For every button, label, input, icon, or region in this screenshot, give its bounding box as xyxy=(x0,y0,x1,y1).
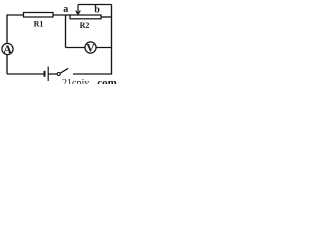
battery cell: long positive plate xyxy=(47,67,49,82)
wire voltmeter branch vertical from node a xyxy=(65,15,67,48)
wire voltmeter horizontal xyxy=(66,47,112,49)
ammeter A xyxy=(2,42,13,56)
wire right vertical xyxy=(111,5,113,75)
rheostat R2 body xyxy=(70,15,101,19)
wire bottom xyxy=(7,73,44,75)
battery cell: short negative plate xyxy=(44,71,46,77)
voltmeter V xyxy=(85,41,96,55)
wire bottom right segment xyxy=(73,73,112,75)
switch blade xyxy=(60,68,68,73)
switch pivot circle xyxy=(57,73,60,76)
svg-text:21cnjy: 21cnjy xyxy=(62,78,89,84)
wire R2 right stub xyxy=(101,16,112,18)
svg-text:b: b xyxy=(94,5,100,16)
svg-text:V: V xyxy=(86,41,95,55)
svg-text:A: A xyxy=(3,42,12,56)
wire battery to switch xyxy=(48,73,57,75)
svg-text:.com: .com xyxy=(95,77,117,84)
wire left vertical xyxy=(6,14,8,74)
wire rheostat slider top xyxy=(78,4,112,6)
svg-text:a: a xyxy=(63,4,68,15)
rheostat wiper arrow xyxy=(76,5,81,15)
resistor R1 xyxy=(24,13,54,18)
svg-text:R2: R2 xyxy=(80,21,90,30)
svg-text:R1: R1 xyxy=(34,20,44,29)
wire top-left horizontal xyxy=(7,14,70,16)
